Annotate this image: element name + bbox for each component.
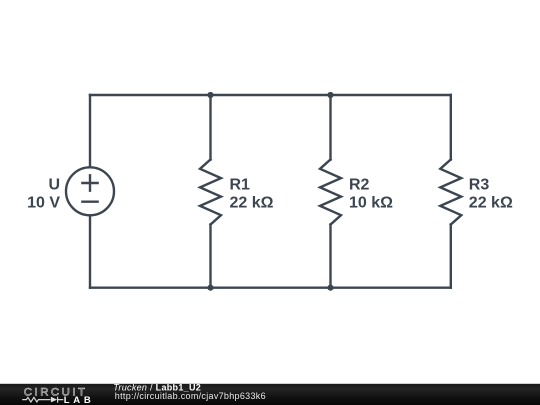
node junction top-R2 [327,92,333,98]
circuitlab logo wordmark LAB [64,395,95,405]
footer title text Trucken / Labb1_U2 [113,382,201,392]
circuitlab logo wordmark CIRCUIT [24,387,88,399]
label R2 value 10 kOhm [349,195,393,212]
svg-text:R1: R1 [230,177,251,194]
svg-text:R3: R3 [469,177,490,194]
wire left upper (source top lead) [89,95,91,167]
footer url text [115,391,266,401]
resistor R2 [320,95,341,288]
svg-text:10 V: 10 V [27,195,60,212]
circuitlab logo resistor-diode line [22,397,63,403]
wire left lower (source bottom lead) [89,215,91,287]
svg-text:LAB: LAB [64,395,95,405]
node junction bottom-R2 [327,285,333,291]
label R1 name [230,177,251,194]
resistor R1 [200,95,221,288]
resistor R3 [440,95,461,288]
footer bar [0,384,540,405]
voltage source U (10 V) [66,167,114,215]
svg-text:10 kΩ: 10 kΩ [349,195,393,212]
node junction bottom-R1 [207,285,213,291]
label R1 value 22 kOhm [230,195,274,212]
svg-text:R2: R2 [349,177,370,194]
label R2 name [349,177,370,194]
svg-text:22 kΩ: 22 kΩ [469,195,513,212]
svg-text:U: U [48,177,60,194]
node junction top-R1 [207,92,213,98]
wire bottom rail [90,287,451,289]
label U value 10 V [27,195,60,212]
label R3 value 22 kOhm [469,195,513,212]
svg-text:http://circuitlab.com/cjav7bhp: http://circuitlab.com/cjav7bhp633k6 [115,391,266,401]
label R3 name [469,177,490,194]
svg-text:22 kΩ: 22 kΩ [230,195,274,212]
wire top rail [90,94,451,96]
label U name [48,177,60,194]
